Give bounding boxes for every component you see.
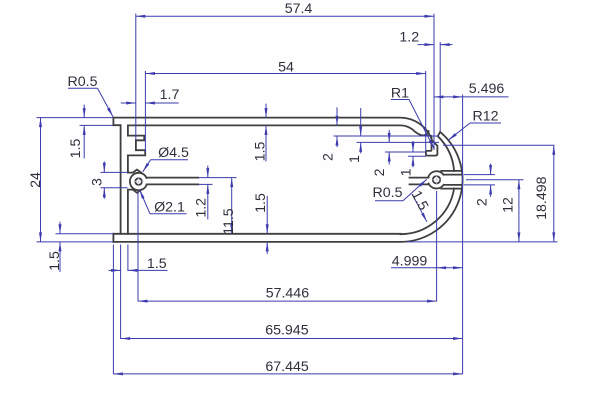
svg-text:1.5: 1.5 — [253, 193, 269, 213]
svg-text:67.445: 67.445 — [265, 359, 309, 375]
svg-text:R1: R1 — [391, 86, 409, 102]
svg-text:24: 24 — [28, 172, 44, 188]
svg-text:1.2: 1.2 — [399, 30, 419, 46]
svg-text:2: 2 — [475, 198, 491, 206]
svg-text:2: 2 — [372, 168, 388, 176]
svg-text:1.7: 1.7 — [160, 87, 180, 103]
svg-text:1.5: 1.5 — [253, 142, 269, 162]
svg-text:18.498: 18.498 — [534, 176, 550, 220]
svg-text:2: 2 — [321, 153, 337, 161]
svg-text:1.5: 1.5 — [147, 256, 167, 272]
svg-text:1: 1 — [399, 168, 415, 176]
svg-text:R0.5: R0.5 — [373, 185, 403, 201]
svg-text:57.446: 57.446 — [266, 286, 310, 302]
svg-text:57.4: 57.4 — [285, 1, 313, 17]
svg-text:12: 12 — [501, 197, 517, 213]
svg-text:4.999: 4.999 — [392, 253, 428, 269]
svg-text:1.5: 1.5 — [47, 251, 63, 271]
svg-text:5.496: 5.496 — [469, 81, 505, 97]
svg-text:1.5: 1.5 — [68, 139, 84, 159]
svg-text:R12: R12 — [472, 109, 498, 125]
svg-text:R0.5: R0.5 — [68, 74, 98, 90]
svg-text:Ø4.5: Ø4.5 — [158, 145, 189, 161]
svg-text:Ø2.1: Ø2.1 — [154, 200, 185, 216]
svg-text:65.945: 65.945 — [265, 322, 309, 338]
svg-text:11.5: 11.5 — [221, 208, 237, 235]
svg-text:1.2: 1.2 — [194, 198, 210, 218]
svg-text:1: 1 — [347, 155, 363, 163]
svg-text:3: 3 — [90, 178, 106, 186]
svg-text:54: 54 — [278, 60, 294, 76]
